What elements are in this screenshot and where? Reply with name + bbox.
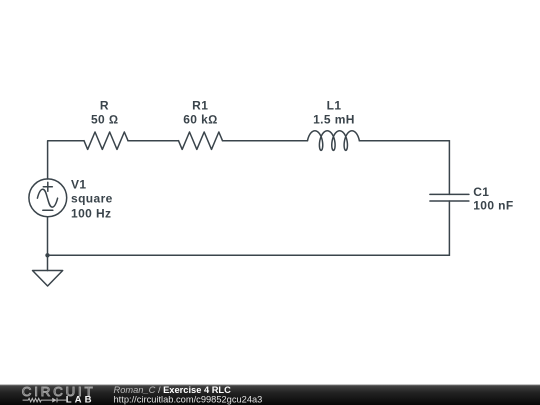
svg-text:60 kΩ: 60 kΩ — [183, 113, 218, 127]
svg-text:V1: V1 — [71, 177, 86, 191]
svg-text:R: R — [100, 98, 109, 112]
svg-text:square: square — [71, 191, 113, 205]
svg-text:LAB: LAB — [66, 395, 95, 405]
svg-text:1.5 mH: 1.5 mH — [313, 113, 355, 127]
svg-text:100 nF: 100 nF — [473, 199, 513, 213]
svg-text:C1: C1 — [473, 185, 489, 199]
svg-text:R1: R1 — [192, 98, 208, 112]
svg-text:L1: L1 — [327, 98, 342, 112]
svg-text:50 Ω: 50 Ω — [91, 113, 119, 127]
svg-text:http://circuitlab.com/c99852gc: http://circuitlab.com/c99852gcu24a3 — [114, 394, 263, 404]
svg-text:100 Hz: 100 Hz — [71, 206, 111, 220]
